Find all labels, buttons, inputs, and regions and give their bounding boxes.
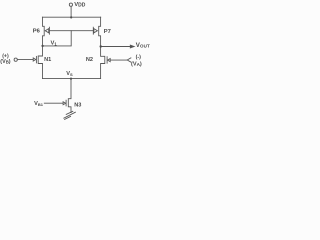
svg-text:N1: N1 — [44, 57, 51, 63]
svg-text:VOUT: VOUT — [136, 42, 150, 49]
svg-text:VDD: VDD — [74, 2, 86, 9]
svg-text:P7: P7 — [104, 29, 111, 35]
svg-text:N3: N3 — [74, 102, 81, 108]
svg-text:(VA): (VA) — [131, 61, 142, 67]
svg-text:VB1: VB1 — [34, 101, 44, 107]
svg-text:(VB): (VB) — [0, 59, 11, 65]
svg-text:N2: N2 — [86, 57, 93, 63]
svg-text:V1: V1 — [51, 40, 58, 46]
svg-text:VS: VS — [66, 71, 73, 77]
svg-text:(-): (-) — [136, 55, 142, 61]
svg-text:P6: P6 — [33, 28, 41, 34]
